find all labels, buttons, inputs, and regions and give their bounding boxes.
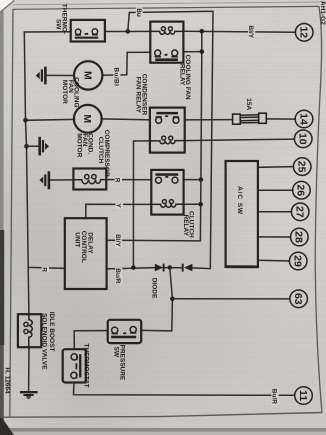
- clutch relay contacts: [156, 177, 179, 183]
- svg-text:11: 11: [297, 390, 309, 401]
- junction node: thermo / Bu riser: [126, 29, 131, 34]
- wire: fuse to terminal 14: [266, 118, 295, 120]
- page bottom-left corner dark wedge: [0, 415, 14, 435]
- svg-text:A/C SW: A/C SW: [236, 186, 243, 215]
- svg-text:Bl/Y: Bl/Y: [114, 234, 121, 247]
- terminal 28: [291, 228, 309, 246]
- label Bl/Y at terminal 12: [247, 25, 255, 39]
- terminal 63: [290, 290, 308, 308]
- wire: idle boost valve to ground stem: [28, 347, 30, 392]
- terminal 10: [294, 130, 312, 148]
- page bottom edge band: [0, 428, 326, 435]
- wire Bu/R: delay unit to diode pair: [107, 268, 155, 269]
- wire: cooling fan motor to cooling fan relay contact (Bu/Bl): [102, 52, 150, 75]
- svg-text:R: R: [41, 267, 48, 272]
- wire: A/C switch to terminal 26: [258, 189, 293, 191]
- svg-text:25: 25: [296, 161, 308, 173]
- junction node: 63 branch: [170, 297, 175, 302]
- clutch relay bar: [155, 173, 178, 176]
- label Y (delay wire): [115, 203, 123, 209]
- diode D2: [183, 264, 193, 272]
- wire: A/C switch to terminal 25: [258, 166, 294, 169]
- label Bl/Y (delay wire): [114, 234, 122, 248]
- svg-text:63: 63: [292, 293, 304, 305]
- junction node: bus at clutch relay coil: [198, 202, 203, 207]
- label Bu/R (delay wire): [114, 268, 122, 284]
- ground G4 (idle boost valve): [20, 392, 38, 399]
- svg-text:10: 10: [297, 133, 309, 145]
- condenser fan relay coil: [150, 136, 184, 144]
- wire: A/C switch to terminal 29: [258, 259, 290, 262]
- svg-text:Bu/R: Bu/R: [271, 389, 278, 404]
- A/C switch box bottom edge: [225, 265, 258, 268]
- wire R: compressor clutch to clutch relay contact: [106, 179, 151, 181]
- pressure switch bar: [111, 336, 136, 339]
- page top edge line: [13, 2, 326, 5]
- terminal 11: [295, 387, 313, 405]
- pressure switch box: [108, 320, 142, 343]
- wire Y: delay unit to clutch relay coil: [86, 204, 152, 218]
- clutch relay box: [151, 170, 183, 215]
- junction node: bus at relay1 coil: [200, 29, 205, 34]
- condenser fan relay bar: [156, 112, 178, 115]
- junction node: Bu/R at condenser coil drop: [131, 265, 136, 270]
- compressor clutch coil: [74, 175, 107, 184]
- wire Bl/Y: cooling fan relay coil to terminal 12: [183, 30, 295, 33]
- svg-text:DIODE: DIODE: [151, 278, 158, 299]
- cooling fan relay contacts: [155, 50, 178, 57]
- wire: diode tap down to pressure switch: [141, 268, 172, 331]
- thermostat contacts: [71, 354, 77, 379]
- wire: A/C switch to terminal 28: [258, 236, 291, 238]
- page top-left corner cut (white outside): [0, 0, 15, 13]
- svg-text:M: M: [81, 114, 93, 123]
- wire: clutch relay coil to bus: [184, 203, 201, 205]
- wire: between diodes: [163, 267, 182, 269]
- junction node: bus at relay1 contact: [200, 49, 205, 54]
- wire: A/C switch to terminal 27: [258, 211, 292, 213]
- svg-text:28: 28: [293, 231, 305, 243]
- delay control unit box: [65, 218, 107, 289]
- condenser fan relay contacts: [156, 116, 180, 123]
- condenser fan motor M2: [74, 105, 102, 133]
- terminal 26: [293, 181, 311, 199]
- frame border left: [10, 9, 13, 417]
- cooling fan relay box: [150, 22, 183, 63]
- wire: ground1 stem to cooling fan motor: [47, 74, 74, 76]
- svg-text:MOTOR: MOTOR: [61, 80, 68, 104]
- cooling fan motor M1: [74, 61, 102, 89]
- idle boost solenoid valve box: [18, 314, 41, 347]
- wire: condenser fan relay coil to Bu/R node: [133, 141, 150, 268]
- svg-text:CLUTCH: CLUTCH: [97, 137, 104, 164]
- wire: clutch relay contact to bus: [184, 179, 201, 181]
- svg-text:SW: SW: [55, 19, 62, 30]
- label R (compressor clutch wire): [114, 177, 122, 183]
- svg-text:RELAY: RELAY: [182, 215, 189, 237]
- label R (bus wire to delay): [41, 267, 49, 273]
- wire: bus to condenser fan motor: [26, 118, 75, 121]
- svg-text:THERMOSTAT: THERMOSTAT: [83, 343, 90, 387]
- thermo switch box: [71, 20, 105, 42]
- label Bu/Bl: [112, 67, 120, 88]
- svg-text:IDLE BOOST: IDLE BOOST: [48, 312, 55, 352]
- terminal 25: [293, 158, 311, 176]
- wire: right bus (Bl/Y net) down to delay unit: [107, 31, 202, 241]
- svg-text:SW: SW: [113, 347, 120, 358]
- terminal 14: [295, 110, 313, 128]
- junction node: bus to motor2: [23, 118, 28, 123]
- clutch relay coil: [152, 200, 184, 208]
- svg-text:AH1-G2: AH1-G2: [319, 1, 326, 25]
- svg-text:12: 12: [298, 26, 310, 38]
- svg-text:FAN RELAY: FAN RELAY: [135, 77, 142, 114]
- wire: condenser fan relay coil to terminal 10: [185, 139, 295, 141]
- wire: to terminal 63: [172, 298, 289, 300]
- A/C switch box: [226, 161, 258, 267]
- svg-text:SOLENOID VALVE: SOLENOID VALVE: [41, 313, 48, 370]
- svg-text:MOTOR: MOTOR: [76, 133, 83, 157]
- wire: thermo-sw to cooling fan relay coil: [105, 30, 150, 32]
- terminal 27: [291, 203, 309, 221]
- svg-text:UNIT: UNIT: [74, 232, 81, 247]
- svg-text:Bu: Bu: [135, 8, 142, 17]
- junction node: bus at clutch relay contact: [199, 177, 204, 182]
- thermo switch contacts: [75, 29, 98, 35]
- wire: ground3 stem to compressor clutch: [50, 179, 73, 181]
- wire: condenser fan relay contact to fuse: [185, 119, 233, 121]
- condenser fan relay box: [150, 108, 185, 153]
- wire: pressure switch to thermostat: [74, 331, 108, 349]
- label Bu: [135, 8, 143, 17]
- svg-text:H. 12664: H. 12664: [4, 367, 11, 394]
- page left edge shadow band: [0, 0, 4, 435]
- svg-text:R: R: [114, 178, 121, 183]
- ground G3 (compressor clutch): [39, 171, 49, 189]
- svg-text:Y: Y: [115, 203, 122, 208]
- svg-text:M: M: [82, 71, 94, 80]
- svg-text:Bu/R: Bu/R: [114, 268, 121, 283]
- pressure switch contacts: [112, 327, 137, 334]
- thermostat bar: [79, 354, 81, 377]
- svg-text:14: 14: [297, 113, 309, 125]
- svg-text:RELAY: RELAY: [179, 64, 186, 86]
- junction node: bus to ground2: [24, 144, 29, 149]
- wire Bu/R: thermostat to terminal 11: [74, 383, 295, 396]
- svg-text:Bl/Y: Bl/Y: [247, 25, 254, 38]
- wire: left ground bus from thermo-sw down to idle boost valve: [24, 32, 71, 314]
- page top-left corner edge line: [0, 1, 14, 13]
- wire: cooling fan relay contact to bus: [183, 51, 201, 53]
- label Bu/R at terminal 11: [271, 389, 279, 405]
- wire Bu: riser to top bus and down right side to diode2: [128, 11, 213, 268]
- terminal 29: [289, 252, 307, 270]
- terminal 12: [295, 24, 313, 42]
- thermo switch bar: [75, 37, 99, 39]
- junction node: diode centre tap: [168, 265, 173, 270]
- idle boost solenoid coil: [24, 315, 32, 347]
- frame border right: [315, 6, 322, 412]
- cooling fan relay coil: [151, 27, 184, 35]
- cooling fan relay bar: [155, 58, 178, 61]
- wire R: bus to delay control unit: [28, 266, 65, 268]
- frame border bottom: [0, 413, 322, 418]
- ground G2 (chassis on bus): [27, 137, 49, 156]
- svg-text:15A: 15A: [245, 98, 252, 110]
- diode D1: [155, 264, 164, 272]
- svg-text:27: 27: [294, 206, 306, 218]
- svg-text:26: 26: [295, 184, 307, 196]
- svg-text:Bu/Bl: Bu/Bl: [112, 67, 119, 86]
- thermostat box: [63, 349, 86, 382]
- wire: condenser fan motor to condenser fan relay contact: [101, 118, 150, 121]
- ground G1 (cooling fan motor): [36, 67, 46, 85]
- svg-text:29: 29: [292, 255, 304, 267]
- frame border top: [13, 6, 319, 9]
- fuse 15A: [233, 113, 267, 124]
- compressor clutch box: [73, 169, 106, 190]
